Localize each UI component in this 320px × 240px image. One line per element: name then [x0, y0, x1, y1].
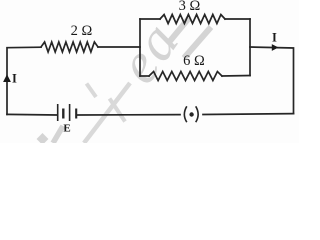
wire: top branch lead-in: [140, 18, 160, 20]
wire: top-left segment: [7, 47, 41, 114]
svg-text:3 Ω: 3 Ω: [179, 0, 201, 14]
svg-text:2 Ω: 2 Ω: [71, 23, 93, 39]
wire: box to right corner, down right side: [250, 47, 294, 114]
resistor R2 3ohm: [160, 15, 225, 24]
wire: battery to plug key: [78, 114, 181, 116]
battery E: [58, 104, 76, 121]
plug key: [184, 106, 198, 122]
svg-text:6 Ω: 6 Ω: [183, 53, 205, 69]
node: box right vertical: [249, 19, 251, 76]
svg-text:I: I: [12, 72, 17, 86]
arrow: current I right: [272, 44, 279, 51]
watermark fragments (gray diagonal text pieces): [37, 133, 49, 145]
wire: bottom branch lead-in: [140, 75, 149, 77]
node: box left vertical: [139, 19, 141, 76]
resistor R3 6ohm: [149, 72, 222, 81]
wire: plug key to right corner: [203, 113, 294, 116]
svg-text:I: I: [272, 31, 277, 45]
svg-text:E: E: [63, 123, 70, 135]
arrow: current I left (up): [3, 74, 11, 82]
wire: R1 to parallel box: [98, 46, 140, 48]
wire: bottom branch lead-out: [222, 75, 250, 78]
resistor R1 2ohm: [41, 42, 98, 52]
wire: top branch lead-out: [225, 18, 250, 20]
wire: bottom left segment to battery: [7, 113, 57, 116]
